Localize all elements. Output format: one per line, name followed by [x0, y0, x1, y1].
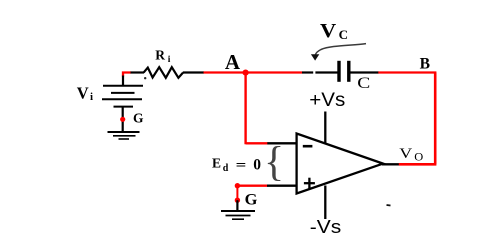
label Ed = 0 [212, 156, 261, 174]
node G2 dot lower [235, 198, 240, 203]
wire output red [399, 163, 437, 166]
wire red corner at battery top [123, 73, 131, 77]
resistor Ri [144, 67, 183, 78]
-Vs lead [324, 186, 326, 220]
label Ri [155, 48, 171, 65]
wire noninverting input red [237, 184, 267, 186]
capacitor C plates [337, 61, 340, 82]
svg-text:B: B [420, 55, 430, 72]
svg-text:O: O [414, 150, 423, 164]
node G1 dot [120, 117, 125, 122]
wire inverting input black [267, 142, 297, 144]
svg-text:C: C [357, 75, 370, 92]
svg-text:V: V [77, 84, 89, 103]
op-amp U1 triangle [297, 134, 383, 194]
artifact dot [144, 77, 146, 79]
svg-text:=: = [236, 158, 247, 173]
node A [243, 70, 249, 76]
wire red to B corner [378, 71, 436, 73]
label V_O [399, 146, 423, 163]
battery top lead [122, 76, 124, 86]
svg-text:{: { [264, 140, 284, 186]
svg-text:C: C [339, 27, 348, 42]
artifact tick [387, 204, 391, 207]
op-amp plus sign [304, 178, 315, 189]
label V_C [320, 20, 348, 42]
ground G1 [108, 132, 140, 139]
svg-text:-Vs: -Vs [310, 216, 342, 237]
+Vs lead [324, 112, 326, 144]
wire resistor lead out [183, 71, 204, 73]
capacitor left lead [302, 71, 313, 73]
wire G2 red vertical [236, 186, 238, 201]
svg-text:i: i [168, 55, 171, 65]
wire inverting input red [246, 142, 268, 144]
svg-text:V: V [320, 20, 337, 42]
svg-text:R: R [155, 48, 165, 63]
capacitor right lead [350, 71, 379, 73]
wire A vertical down [244, 73, 246, 145]
svg-text:0: 0 [253, 157, 261, 174]
G2 ground lead [236, 200, 238, 211]
svg-text:E: E [212, 156, 221, 171]
svg-text:A: A [225, 50, 241, 74]
ground G2 [221, 211, 255, 219]
label Vi [77, 84, 93, 103]
wire black to resistor [131, 71, 145, 73]
svg-text:G: G [133, 111, 144, 126]
output lead black [382, 163, 399, 165]
node G2 dot upper [235, 183, 240, 188]
arrow (Vc indicator) [315, 44, 366, 55]
op-amp minus sign [303, 145, 313, 148]
wire red top (A segment) [204, 71, 303, 73]
svg-text:G: G [245, 192, 258, 209]
wire noninverting input black [267, 184, 297, 186]
battery Vi plates [102, 86, 143, 107]
svg-text:i: i [90, 91, 93, 103]
svg-text:V: V [399, 146, 412, 162]
battery bottom lead [122, 107, 124, 132]
wire right vertical (B to output) [434, 73, 437, 165]
svg-text:d: d [223, 163, 229, 174]
svg-text:+Vs: +Vs [309, 90, 345, 111]
